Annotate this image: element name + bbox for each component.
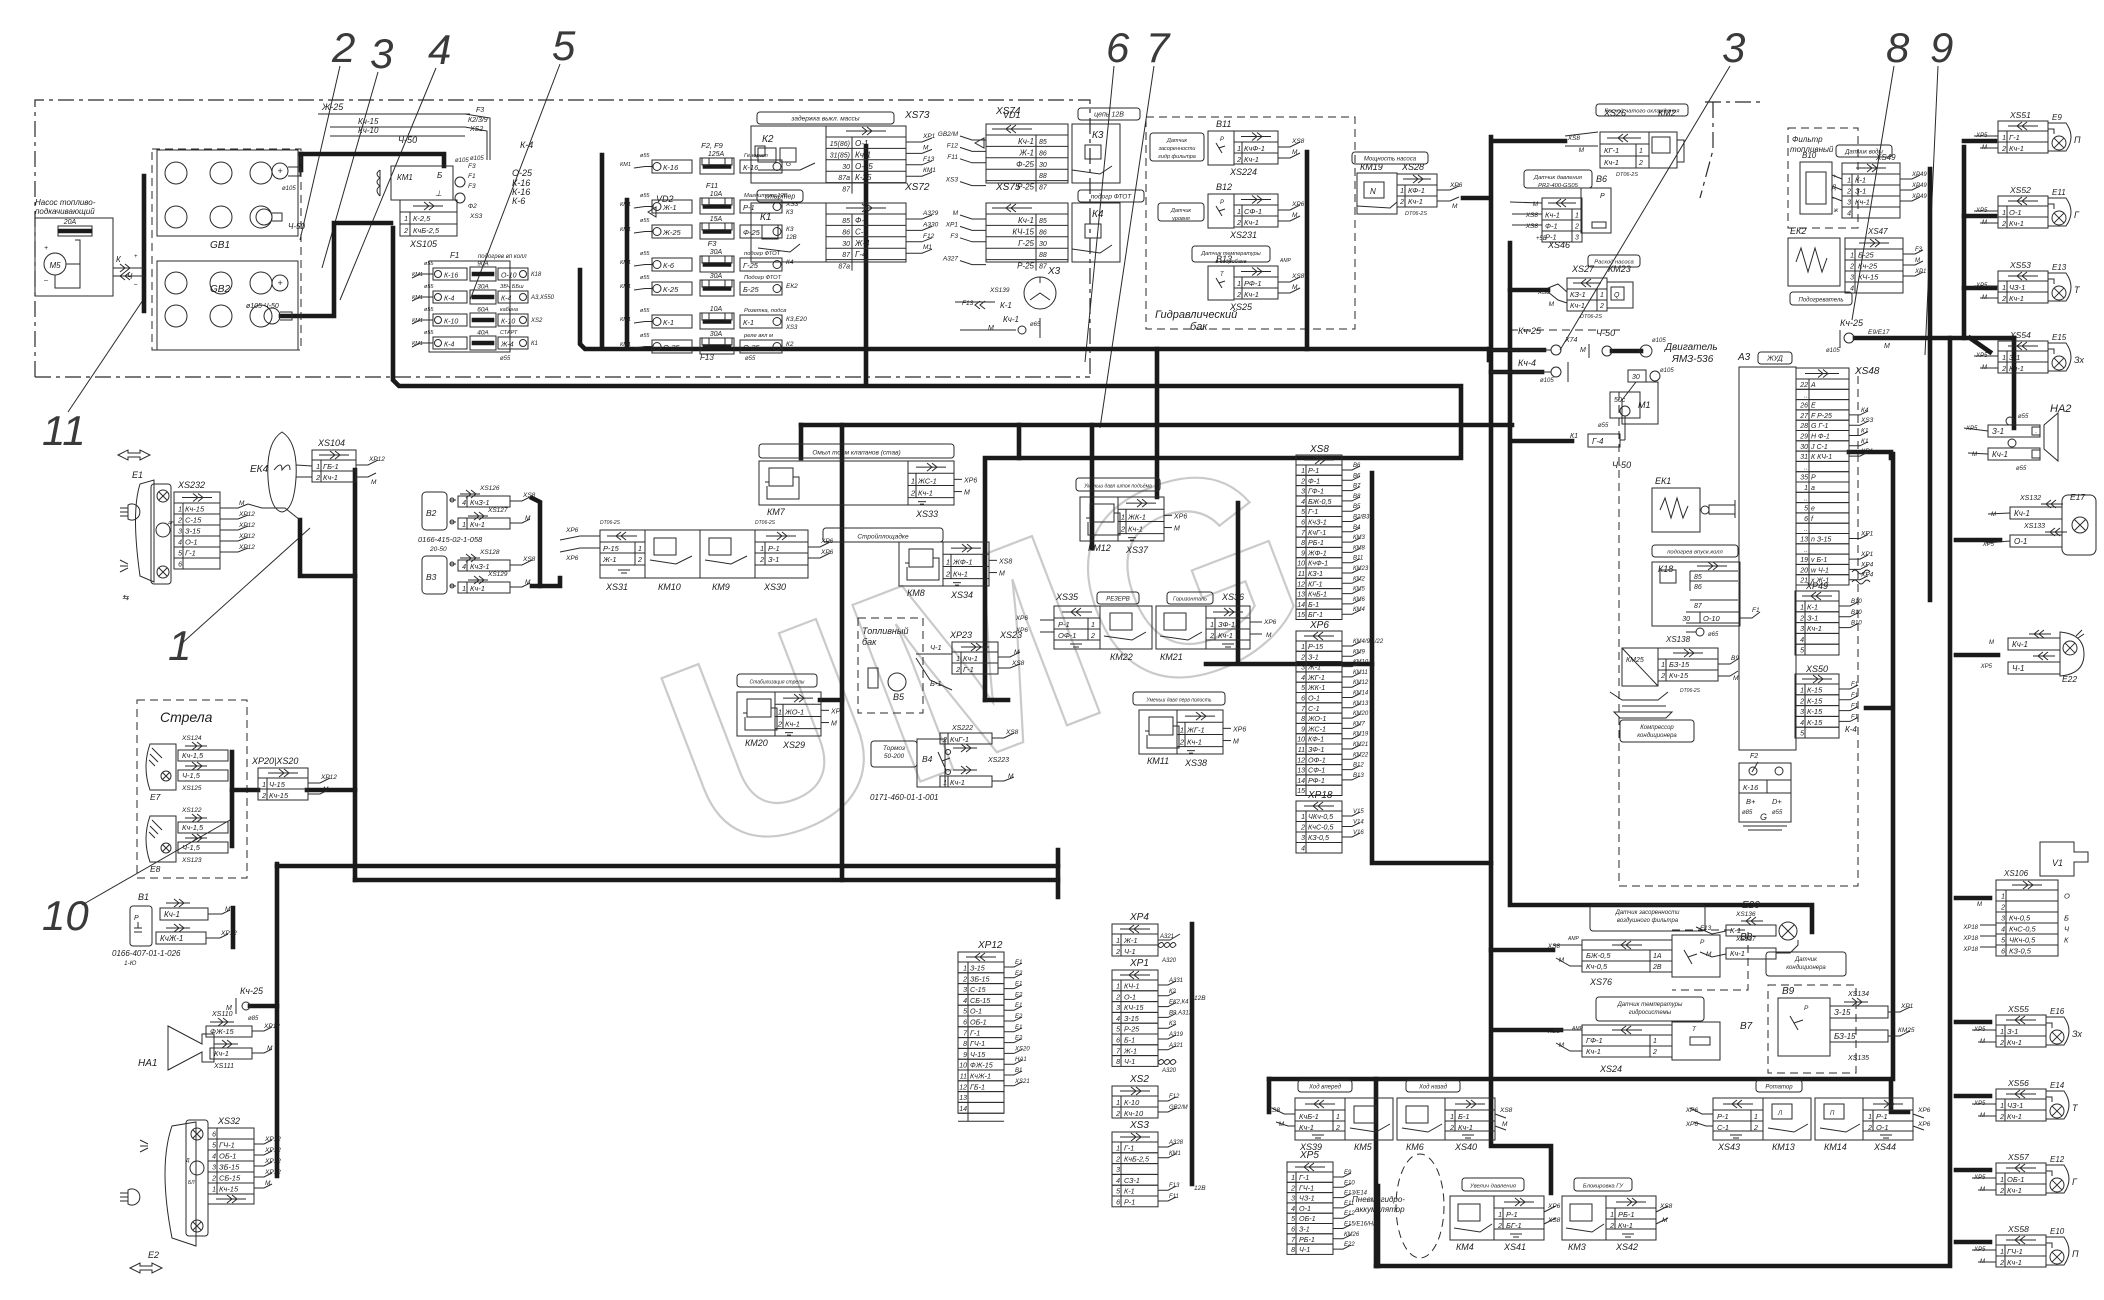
svg-text:2: 2 [1638, 160, 1643, 167]
svg-text:12: 12 [1297, 581, 1305, 588]
svg-text:КМ7: КМ7 [1353, 721, 1366, 727]
svg-text:0166-407-01-1-026: 0166-407-01-1-026 [112, 949, 181, 958]
svg-text:Уменьш давл шток подъёма: Уменьш давл шток подъёма [1084, 484, 1152, 490]
svg-text:ОБ-1: ОБ-1 [1299, 1214, 1316, 1223]
svg-text:1: 1 [1116, 984, 1120, 991]
svg-text:Кч-15: Кч-15 [1669, 671, 1689, 680]
svg-text:кондиционера: кондиционера [1637, 733, 1677, 739]
svg-text:31(85): 31(85) [830, 152, 850, 159]
svg-text:2: 2 [1115, 994, 1120, 1001]
svg-text:XS36: XS36 [1221, 592, 1244, 602]
svg-text:XS138: XS138 [1665, 635, 1691, 644]
svg-text:Подогреватель: Подогреватель [1799, 298, 1844, 304]
svg-text:СБ-15: СБ-15 [219, 1174, 241, 1183]
svg-text:КМ1: КМ1 [620, 260, 631, 266]
svg-text:Стабилизация стрелы: Стабилизация стрелы [750, 680, 805, 686]
hydraulic tank dashed box [1146, 117, 1355, 329]
socket X3 [1024, 277, 1056, 309]
svg-text:XS125: XS125 [181, 785, 202, 792]
svg-text:ø105 Ч-50: ø105 Ч-50 [246, 303, 279, 310]
svg-text:КМ25: КМ25 [1626, 657, 1644, 664]
svg-text:В1: В1 [1015, 1068, 1022, 1074]
svg-text:Р: Р [1804, 1005, 1809, 1012]
svg-text:ХР1: ХР1 [1129, 958, 1149, 969]
svg-text:Г-1: Г-1 [1124, 1144, 1134, 1153]
svg-text:М: М [923, 144, 929, 151]
svg-text:воздушного фильтра: воздушного фильтра [1617, 918, 1679, 924]
relay K1 block XS72 starter [757, 190, 803, 202]
svg-text:XS50: XS50 [1805, 664, 1828, 674]
svg-text:f: f [1811, 516, 1814, 523]
lamp E22 [2029, 633, 2051, 635]
svg-text:4: 4 [1301, 499, 1305, 506]
svg-text:86: 86 [1694, 584, 1702, 591]
svg-text:Е12: Е12 [1344, 1211, 1355, 1217]
svg-text:XP12: XP12 [264, 1158, 281, 1165]
svg-text:ø55: ø55 [640, 333, 650, 339]
svg-text:А3,Х550: А3,Х550 [530, 295, 555, 301]
svg-text:86: 86 [1039, 229, 1047, 236]
svg-text:ФЖ-15: ФЖ-15 [970, 1061, 994, 1070]
svg-text:Кч-1: Кч-1 [2009, 144, 2024, 153]
svg-text:XP5: XP5 [1980, 664, 1993, 670]
svg-text:Датчик температуры: Датчик температуры [1617, 1002, 1683, 1008]
svg-text:Б-1: Б-1 [1124, 1036, 1135, 1045]
svg-text:N: N [1370, 187, 1376, 196]
svg-text:КМ13: КМ13 [1353, 701, 1369, 707]
svg-text:2: 2 [1300, 825, 1305, 832]
svg-text:О-25: О-25 [855, 162, 873, 171]
svg-text:w Ч-1: w Ч-1 [1811, 567, 1829, 574]
svg-text:2: 2 [1399, 199, 1404, 206]
svg-text:XS57: XS57 [2007, 1152, 2029, 1162]
svg-text:XS76: XS76 [1589, 977, 1612, 987]
svg-text:М: М [225, 906, 231, 913]
svg-text:XS46: XS46 [1547, 240, 1570, 250]
svg-text:НА1: НА1 [1015, 1057, 1027, 1063]
svg-text:..: .. [1804, 547, 1808, 554]
svg-text:Блокировка ГУ: Блокировка ГУ [1583, 1184, 1624, 1190]
svg-text:4: 4 [1116, 1016, 1120, 1023]
svg-text:1: 1 [638, 546, 642, 553]
svg-text:З-15: З-15 [185, 527, 201, 536]
svg-text:КМ21: КМ21 [1160, 652, 1183, 662]
svg-text:КЧ-15: КЧ-15 [1124, 1003, 1144, 1012]
svg-text:БЖ-0,5: БЖ-0,5 [1308, 497, 1332, 506]
svg-text:XP12: XP12 [220, 930, 237, 937]
svg-text:РБ-1: РБ-1 [1618, 1210, 1635, 1219]
svg-text:XS27: XS27 [1571, 264, 1595, 274]
AC sensor B9 XS134 XS135 [1766, 952, 1846, 976]
svg-text:К-25: К-25 [855, 173, 872, 182]
svg-text:DT06-2S: DT06-2S [1405, 211, 1427, 217]
svg-text:10А: 10А [710, 306, 723, 313]
svg-text:Стройплощадке: Стройплощадке [857, 533, 909, 541]
svg-text:Е2: Е2 [1015, 1014, 1023, 1020]
svg-text:М: М [1533, 201, 1539, 208]
svg-text:2: 2 [1236, 220, 1241, 227]
relays KM13 KM14 rotator [1756, 1080, 1802, 1092]
svg-text:Е1: Е1 [1015, 1025, 1022, 1031]
svg-text:ø105: ø105 [1826, 348, 1840, 354]
svg-text:Кч-10: Кч-10 [1124, 1109, 1144, 1118]
svg-text:XS44: XS44 [1873, 1142, 1896, 1152]
fuel tank dashed box [858, 618, 923, 713]
svg-text:GB2/М: GB2/М [938, 131, 959, 138]
svg-text:В13: В13 [1216, 254, 1232, 264]
svg-text:Е1: Е1 [132, 470, 143, 480]
svg-text:КМ12: КМ12 [1353, 680, 1369, 686]
svg-text:9: 9 [1301, 726, 1305, 733]
svg-text:Ч-1,5: Ч-1,5 [182, 771, 201, 780]
svg-text:К1: К1 [760, 212, 771, 223]
svg-text:М: М [1292, 284, 1298, 291]
svg-text:2: 2 [261, 793, 266, 800]
svg-text:ЕК2: ЕК2 [786, 283, 798, 290]
svg-text:В11: В11 [1353, 556, 1363, 562]
relay KM11 + XS38 [1133, 692, 1225, 705]
svg-text:К КЧ-1: К КЧ-1 [1811, 454, 1832, 461]
svg-text:КЗ-0,5: КЗ-0,5 [1308, 833, 1330, 842]
svg-text:ø105: ø105 [1660, 368, 1674, 374]
svg-text:Д: Д [185, 1158, 190, 1164]
svg-text:XS52: XS52 [2009, 185, 2031, 195]
svg-text:4: 4 [1301, 846, 1305, 853]
svg-text:К-1: К-1 [1730, 926, 1741, 935]
svg-text:F1: F1 [1851, 704, 1858, 710]
svg-text:О-10: О-10 [1703, 614, 1721, 623]
watermark UMG [625, 395, 1345, 916]
svg-text:М: М [988, 325, 994, 332]
svg-text:XS55: XS55 [2007, 1004, 2029, 1014]
svg-text:Т: Т [2072, 1103, 2079, 1113]
svg-text:бак: бак [862, 637, 877, 647]
svg-text:3: 3 [370, 30, 393, 77]
svg-text:В11: В11 [1216, 119, 1231, 129]
svg-text:З-1: З-1 [1992, 427, 2004, 436]
svg-text:12: 12 [1297, 757, 1305, 764]
svg-text:ГБ-1: ГБ-1 [970, 1082, 985, 1091]
svg-text:XS3: XS3 [469, 213, 483, 220]
svg-text:ø65: ø65 [1030, 322, 1041, 328]
svg-text:К-4: К-4 [444, 296, 454, 303]
svg-text:6: 6 [1804, 516, 1808, 523]
svg-text:1: 1 [1450, 1114, 1454, 1121]
svg-text:М: М [323, 786, 329, 793]
svg-text:К3: К3 [1092, 130, 1104, 141]
svg-text:ЖО-1: ЖО-1 [784, 707, 804, 716]
svg-text:F2, F9: F2, F9 [701, 141, 724, 150]
svg-text:XS8: XS8 [1499, 1107, 1513, 1114]
relay K2 block XS73 [757, 112, 894, 124]
svg-text:Т: Т [1220, 272, 1225, 278]
svg-text:20А: 20А [63, 219, 77, 226]
svg-text:XS3: XS3 [785, 325, 798, 331]
svg-text:Ч-15: Ч-15 [269, 780, 286, 789]
svg-text:–: – [43, 277, 48, 284]
svg-text:2: 2 [1999, 1188, 2004, 1195]
svg-text:XP49: XP49 [1911, 194, 1927, 200]
svg-text:XS104: XS104 [317, 438, 345, 448]
svg-text:Б-25: Б-25 [1858, 251, 1875, 260]
svg-text:Кч-1: Кч-1 [2009, 294, 2024, 303]
svg-text:85: 85 [842, 218, 850, 225]
svg-text:Кч-1: Кч-1 [1244, 290, 1259, 299]
svg-text:F1: F1 [1851, 682, 1858, 688]
battery block GB1 GB2 [152, 149, 301, 350]
svg-text:XP6: XP6 [820, 549, 834, 556]
svg-text:ХР12: ХР12 [977, 940, 1003, 951]
svg-text:XS8: XS8 [1291, 138, 1305, 145]
svg-text:4: 4 [1800, 720, 1804, 727]
svg-text:7: 7 [1301, 530, 1306, 537]
svg-text:XP12: XP12 [264, 1136, 281, 1143]
svg-text:К-10: К-10 [1124, 1098, 1140, 1107]
svg-text:30А: 30А [710, 273, 723, 280]
svg-text:2: 2 [1799, 698, 1804, 705]
svg-text:О-1: О-1 [2009, 208, 2022, 217]
svg-text:1: 1 [2000, 1249, 2004, 1256]
svg-text:Q: Q [1614, 292, 1620, 299]
svg-text:XS58: XS58 [2007, 1224, 2029, 1234]
svg-text:М: М [1549, 301, 1555, 308]
svg-text:О-1: О-1 [970, 1007, 982, 1016]
svg-text:ЧКч-0,5: ЧКч-0,5 [1308, 812, 1334, 821]
svg-text:29: 29 [1799, 434, 1808, 441]
svg-text:2: 2 [2001, 366, 2006, 373]
svg-text:КМ19: КМ19 [1360, 162, 1383, 172]
svg-text:2: 2 [2001, 221, 2006, 228]
svg-text:XS74: XS74 [995, 106, 1021, 117]
svg-text:XS223: XS223 [987, 757, 1009, 764]
svg-text:F13: F13 [923, 156, 935, 163]
svg-text:З-1: З-1 [2009, 353, 2020, 362]
svg-text:Кч-1: Кч-1 [918, 489, 933, 498]
svg-text:З-15: З-15 [1834, 1008, 1851, 1017]
svg-text:3: 3 [2001, 916, 2005, 923]
svg-text:⊥: ⊥ [435, 189, 442, 198]
sensor B13 XS25 [1192, 246, 1270, 262]
svg-text:К-15: К-15 [1807, 718, 1823, 727]
svg-text:Е15: Е15 [2052, 333, 2067, 342]
svg-text:В9: В9 [1782, 986, 1795, 997]
svg-text:Тормоз: Тормоз [883, 745, 905, 752]
svg-text:СБ-15: СБ-15 [970, 996, 991, 1005]
svg-text:Ф-1: Ф-1 [1308, 476, 1320, 485]
svg-text:F11: F11 [947, 154, 958, 161]
svg-text:Г-1: Г-1 [185, 549, 196, 558]
svg-text:11: 11 [1298, 747, 1305, 754]
svg-text:С-1: С-1 [1308, 704, 1320, 713]
svg-text:XS8: XS8 [1525, 223, 1539, 230]
svg-text:4: 4 [462, 500, 466, 507]
svg-text:ГЧ-1: ГЧ-1 [219, 1141, 235, 1150]
svg-text:Ч-50: Ч-50 [1612, 460, 1631, 470]
svg-text:ø105: ø105 [455, 158, 469, 164]
svg-text:Уменьш давл перв полость: Уменьш давл перв полость [1146, 698, 1211, 704]
svg-text:Кч-1: Кч-1 [1218, 631, 1233, 640]
svg-text:Стрела: Стрела [160, 709, 213, 725]
svg-text:О-1: О-1 [1124, 992, 1136, 1001]
svg-text:2: 2 [1120, 525, 1126, 534]
svg-text:+5В: +5В [1536, 236, 1547, 242]
svg-text:ø55: ø55 [640, 193, 650, 199]
svg-text:XS54: XS54 [2009, 330, 2031, 340]
svg-text:D+: D+ [1772, 797, 1782, 806]
svg-text:3: 3 [1575, 235, 1579, 242]
svg-text:XS75: XS75 [995, 182, 1021, 193]
thick bus wires [301, 154, 444, 166]
svg-text:Е9: Е9 [1344, 1170, 1352, 1176]
svg-text:13: 13 [959, 1095, 967, 1102]
svg-text:Омыл торм клапанов (став): Омыл торм клапанов (став) [812, 450, 900, 457]
svg-text:М: М [1292, 149, 1298, 156]
svg-text:1: 1 [1754, 1114, 1758, 1121]
svg-text:+: + [134, 254, 138, 260]
svg-text:F1: F1 [468, 173, 476, 180]
svg-text:КМ23: КМ23 [1353, 566, 1369, 572]
svg-text:ГЧ-1: ГЧ-1 [1299, 1183, 1314, 1192]
svg-text:В9: В9 [1731, 655, 1739, 662]
svg-text:35: 35 [1800, 475, 1808, 482]
svg-text:Е14: Е14 [2050, 1081, 2065, 1090]
svg-text:ХР5: ХР5 [1299, 1150, 1319, 1161]
svg-text:1: 1 [316, 464, 320, 471]
svg-text:ø55: ø55 [745, 356, 756, 362]
svg-text:КчГ-1: КчГ-1 [950, 735, 969, 744]
svg-text:Ж-1: Ж-1 [1123, 1046, 1137, 1055]
svg-text:XS8: XS8 [1267, 1107, 1281, 1114]
svg-text:Кч-1: Кч-1 [1570, 301, 1585, 310]
svg-text:P: P [1220, 137, 1224, 143]
svg-text:Кч-4: Кч-4 [1518, 358, 1536, 368]
svg-text:30: 30 [1682, 616, 1690, 623]
svg-text:Р-1: Р-1 [743, 203, 755, 212]
svg-text:..: .. [1804, 526, 1808, 533]
svg-text:М5: М5 [49, 261, 61, 270]
svg-text:14: 14 [1297, 778, 1305, 785]
svg-text:XS139: XS139 [989, 287, 1010, 294]
svg-text:Л: Л [1777, 1111, 1783, 1117]
svg-text:подогрев вп колл: подогрев вп колл [478, 254, 527, 260]
svg-text:ХР6: ХР6 [1309, 620, 1329, 631]
svg-text:К-15: К-15 [1807, 696, 1823, 705]
svg-text:К1: К1 [1861, 428, 1869, 435]
svg-text:10: 10 [42, 892, 89, 939]
svg-text:Б-1: Б-1 [1458, 1112, 1470, 1121]
svg-text:Е11: Е11 [1344, 1201, 1354, 1207]
svg-text:О-1: О-1 [1308, 694, 1320, 703]
svg-text:12В: 12В [1194, 1185, 1206, 1192]
svg-text:Г-4: Г-4 [1592, 437, 1604, 446]
svg-text:Кч-1: Кч-1 [2012, 640, 2028, 649]
svg-text:Кч-1: Кч-1 [2009, 364, 2024, 373]
svg-text:XP6: XP6 [1173, 513, 1187, 520]
svg-text:XP12: XP12 [320, 774, 337, 781]
svg-text:30: 30 [1039, 241, 1047, 248]
svg-text:ø105: ø105 [1540, 378, 1554, 384]
svg-text:5: 5 [1301, 685, 1305, 692]
svg-text:Кч-1: Кч-1 [214, 1049, 229, 1058]
svg-text:Кч-1: Кч-1 [1187, 738, 1202, 747]
svg-text:К-1: К-1 [1807, 603, 1818, 612]
svg-text:В7: В7 [1353, 484, 1361, 490]
svg-text:1: 1 [2000, 1029, 2004, 1036]
svg-text:4: 4 [1847, 211, 1851, 218]
svg-text:XS8: XS8 [1011, 660, 1025, 667]
svg-text:3: 3 [212, 1165, 216, 1172]
svg-text:К-6: К-6 [663, 261, 675, 270]
svg-text:Кч-1: Кч-1 [1408, 197, 1423, 206]
svg-text:12В: 12В [786, 235, 797, 241]
svg-text:З-1: З-1 [768, 555, 779, 564]
svg-text:2: 2 [1999, 1114, 2004, 1121]
sensor B12 XS231 [1158, 203, 1204, 221]
svg-text:15(86): 15(86) [830, 141, 850, 148]
svg-text:XS3: XS3 [945, 177, 959, 184]
svg-text:В10: В10 [1851, 621, 1862, 627]
svg-text:XP12: XP12 [238, 533, 255, 540]
svg-text:XP6: XP6 [1917, 1121, 1931, 1128]
svg-text:К2/3/9: К2/3/9 [468, 117, 488, 124]
svg-text:1: 1 [1610, 1212, 1614, 1219]
svg-text:XS124: XS124 [181, 735, 202, 742]
svg-text:4: 4 [1116, 1178, 1120, 1185]
svg-text:Е2: Е2 [1015, 1036, 1023, 1042]
svg-text:Кч-1: Кч-1 [785, 720, 800, 729]
svg-text:27: 27 [1799, 413, 1809, 420]
hydro temp sensor B7 XS24 [1596, 997, 1704, 1021]
svg-text:ХР23: ХР23 [949, 630, 972, 640]
svg-text:XS53: XS53 [2009, 260, 2031, 270]
svg-text:Кч-15: Кч-15 [358, 117, 379, 126]
svg-text:Р: Р [1600, 193, 1605, 200]
svg-text:КчЗ-1: КчЗ-1 [470, 498, 490, 507]
svg-text:11: 11 [1298, 571, 1305, 578]
svg-text:АМР: АМР [1567, 936, 1580, 942]
svg-text:КЧ-15: КЧ-15 [1858, 273, 1879, 282]
svg-text:2: 2 [637, 557, 642, 564]
svg-text:XS122: XS122 [181, 807, 202, 814]
svg-text:19: 19 [1800, 557, 1808, 564]
svg-text:А330: А330 [922, 221, 939, 228]
svg-text:GB1: GB1 [210, 240, 230, 251]
svg-text:5: 5 [212, 1143, 216, 1150]
svg-text:К1: К1 [1861, 438, 1869, 445]
svg-text:КМ1: КМ1 [1169, 1151, 1181, 1157]
svg-text:Б-1: Б-1 [1308, 600, 1319, 609]
svg-text:Ж-1: Ж-1 [1019, 148, 1034, 157]
svg-text:3: 3 [1301, 835, 1305, 842]
svg-text:К-6: К-6 [512, 196, 525, 206]
svg-text:ОБ-1: ОБ-1 [2007, 1175, 2024, 1184]
svg-text:КЗ: КЗ [786, 210, 794, 216]
svg-text:XS3: XS3 [1860, 417, 1874, 424]
svg-text:4: 4 [428, 26, 451, 73]
svg-text:Кч-1: Кч-1 [1992, 450, 2008, 459]
svg-text:О-1: О-1 [2014, 537, 2027, 546]
svg-text:Ж-4: Ж-4 [500, 342, 514, 349]
svg-text:40А: 40А [477, 330, 489, 337]
svg-text:а: а [1811, 485, 1815, 492]
svg-text:Ф-1: Ф-1 [1545, 222, 1558, 231]
svg-text:Е2: Е2 [1015, 992, 1023, 998]
svg-text:А320: А320 [1161, 1068, 1177, 1074]
svg-text:Ж-1: Ж-1 [602, 555, 617, 564]
svg-text:XS8: XS8 [1309, 444, 1329, 455]
svg-text:2: 2 [1290, 1185, 1295, 1192]
svg-text:ГЧ-1: ГЧ-1 [2007, 1247, 2023, 1256]
